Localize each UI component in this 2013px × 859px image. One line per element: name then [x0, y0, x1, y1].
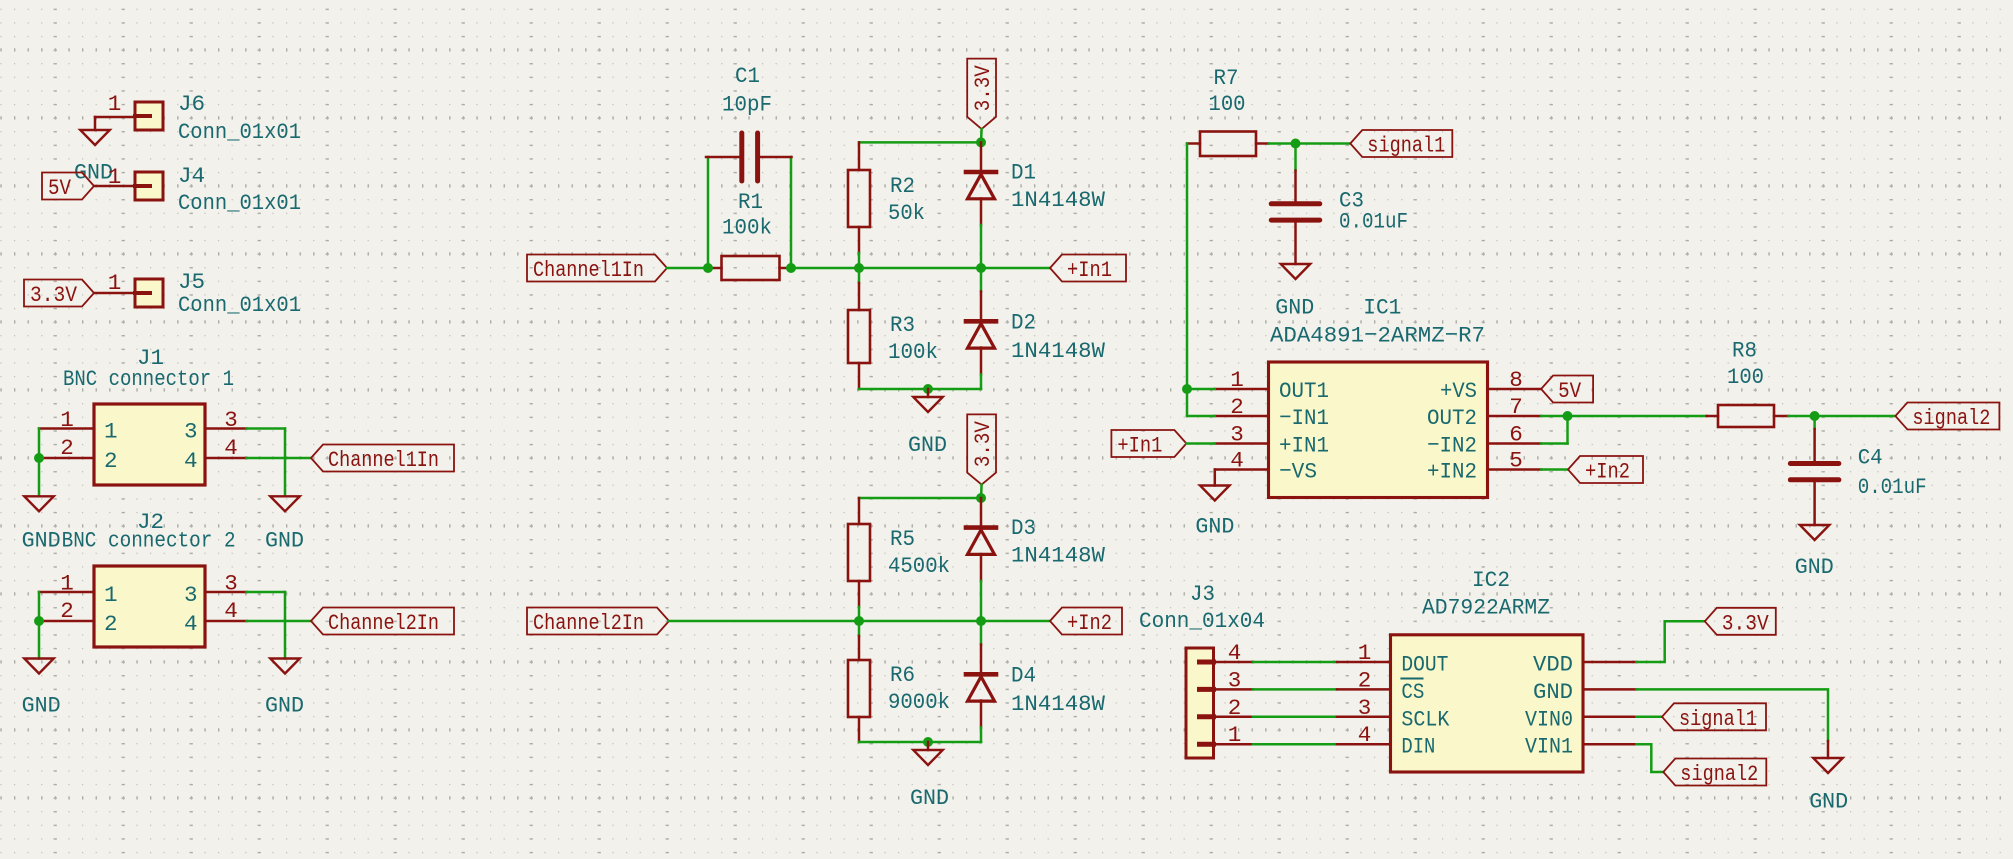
- svg-text:R3: R3: [890, 312, 915, 338]
- svg-text:GND: GND: [910, 785, 949, 811]
- svg-text:3.3V: 3.3V: [970, 421, 996, 467]
- svg-text:1N4148W: 1N4148W: [1011, 542, 1105, 568]
- svg-text:1N4148W: 1N4148W: [1011, 187, 1105, 213]
- svg-text:ADA4891−2ARMZ−R7: ADA4891−2ARMZ−R7: [1270, 323, 1485, 349]
- svg-text:4: 4: [1230, 448, 1244, 474]
- svg-text:R7: R7: [1214, 65, 1239, 91]
- svg-text:1: 1: [1230, 367, 1244, 393]
- svg-text:Channel1In: Channel1In: [328, 447, 439, 473]
- svg-text:R5: R5: [890, 526, 915, 552]
- svg-text:C4: C4: [1858, 445, 1883, 471]
- svg-text:GND: GND: [1275, 295, 1314, 321]
- svg-text:3: 3: [184, 582, 198, 608]
- svg-text:1: 1: [108, 164, 122, 190]
- svg-text:2: 2: [60, 435, 74, 461]
- svg-text:100k: 100k: [888, 339, 938, 365]
- svg-text:9000k: 9000k: [888, 689, 950, 715]
- svg-text:3.3V: 3.3V: [970, 65, 996, 111]
- svg-text:4: 4: [224, 435, 238, 461]
- svg-text:GND: GND: [22, 693, 61, 719]
- svg-text:100: 100: [1209, 91, 1246, 117]
- svg-text:3.3V: 3.3V: [30, 282, 77, 308]
- svg-text:+In1: +In1: [1067, 257, 1112, 283]
- svg-text:+In1: +In1: [1117, 433, 1162, 459]
- svg-text:50k: 50k: [888, 200, 925, 226]
- svg-text:0.01uF: 0.01uF: [1339, 209, 1408, 235]
- svg-text:100k: 100k: [722, 215, 772, 241]
- svg-text:GND: GND: [22, 528, 61, 554]
- svg-text:D2: D2: [1011, 310, 1036, 336]
- svg-text:1: 1: [104, 582, 118, 608]
- svg-text:IC1: IC1: [1363, 295, 1401, 321]
- svg-text:+In2: +In2: [1067, 610, 1112, 636]
- svg-text:1: 1: [60, 407, 74, 433]
- svg-text:GND: GND: [908, 432, 947, 458]
- svg-text:−IN2: −IN2: [1427, 433, 1477, 459]
- svg-text:OUT1: OUT1: [1279, 378, 1329, 404]
- svg-text:2: 2: [1230, 394, 1244, 420]
- svg-text:GND: GND: [1195, 514, 1234, 540]
- svg-text:1: 1: [60, 571, 74, 597]
- svg-text:6: 6: [1509, 422, 1523, 448]
- svg-text:IC2: IC2: [1472, 567, 1510, 593]
- svg-text:Channel2In: Channel2In: [328, 610, 439, 636]
- svg-text:J4: J4: [178, 163, 205, 189]
- svg-text:3: 3: [1228, 667, 1242, 693]
- svg-text:1: 1: [108, 91, 122, 117]
- svg-text:Conn_01x01: Conn_01x01: [178, 119, 301, 145]
- svg-text:GND: GND: [1533, 679, 1573, 705]
- svg-text:Channel2In: Channel2In: [533, 610, 644, 636]
- svg-text:Channel1In: Channel1In: [533, 257, 644, 283]
- svg-text:5: 5: [1509, 448, 1523, 474]
- svg-text:GND: GND: [265, 693, 304, 719]
- svg-text:DIN: DIN: [1401, 734, 1435, 760]
- svg-text:AD7922ARMZ: AD7922ARMZ: [1422, 595, 1550, 621]
- svg-text:GND: GND: [1809, 789, 1848, 815]
- svg-text:+VS: +VS: [1440, 378, 1477, 404]
- svg-text:signal1: signal1: [1367, 133, 1445, 159]
- svg-text:BNC connector 2: BNC connector 2: [62, 528, 236, 554]
- svg-text:D3: D3: [1011, 515, 1036, 541]
- svg-text:2: 2: [1358, 667, 1372, 693]
- svg-text:−VS: −VS: [1279, 459, 1317, 485]
- svg-text:4: 4: [184, 611, 198, 637]
- svg-text:CS: CS: [1401, 679, 1424, 705]
- svg-text:C1: C1: [735, 63, 760, 89]
- svg-text:signal2: signal2: [1680, 761, 1758, 787]
- svg-text:OUT2: OUT2: [1427, 405, 1477, 431]
- svg-text:SCLK: SCLK: [1401, 706, 1449, 732]
- svg-text:Conn_01x01: Conn_01x01: [178, 190, 301, 216]
- svg-text:8: 8: [1509, 367, 1523, 393]
- svg-text:4500k: 4500k: [888, 553, 950, 579]
- svg-text:1: 1: [108, 270, 122, 296]
- svg-text:4: 4: [1358, 722, 1372, 748]
- svg-text:+In2: +In2: [1585, 459, 1630, 485]
- svg-text:−IN1: −IN1: [1279, 405, 1329, 431]
- svg-text:VIN0: VIN0: [1525, 706, 1573, 732]
- svg-text:1N4148W: 1N4148W: [1011, 338, 1105, 364]
- svg-text:R8: R8: [1732, 338, 1757, 364]
- svg-text:J6: J6: [178, 91, 205, 117]
- svg-text:4: 4: [224, 598, 238, 624]
- svg-text:J3: J3: [1190, 581, 1215, 607]
- svg-text:signal1: signal1: [1679, 706, 1757, 732]
- svg-text:GND: GND: [1795, 554, 1834, 580]
- svg-text:1: 1: [104, 419, 118, 445]
- svg-text:10pF: 10pF: [722, 92, 772, 118]
- svg-text:BNC connector 1: BNC connector 1: [63, 366, 234, 392]
- svg-text:0.01uF: 0.01uF: [1858, 474, 1927, 500]
- svg-text:2: 2: [104, 611, 118, 637]
- svg-text:R2: R2: [890, 173, 915, 199]
- svg-text:4: 4: [184, 448, 198, 474]
- svg-text:VIN1: VIN1: [1525, 734, 1573, 760]
- svg-text:DOUT: DOUT: [1401, 652, 1448, 678]
- svg-text:Conn_01x04: Conn_01x04: [1139, 608, 1265, 634]
- svg-text:GND: GND: [265, 528, 304, 554]
- svg-text:3.3V: 3.3V: [1722, 610, 1769, 636]
- svg-text:1: 1: [1228, 722, 1242, 748]
- svg-text:1N4148W: 1N4148W: [1011, 691, 1105, 717]
- svg-text:2: 2: [104, 448, 118, 474]
- svg-text:+IN1: +IN1: [1279, 433, 1329, 459]
- svg-text:100: 100: [1727, 364, 1764, 390]
- svg-text:2: 2: [60, 598, 74, 624]
- svg-text:5V: 5V: [1558, 378, 1581, 404]
- svg-text:5V: 5V: [48, 175, 71, 201]
- svg-text:7: 7: [1509, 394, 1523, 420]
- svg-text:3: 3: [224, 571, 238, 597]
- svg-text:3: 3: [184, 419, 198, 445]
- svg-text:R6: R6: [890, 662, 915, 688]
- svg-text:Conn_01x01: Conn_01x01: [178, 292, 301, 318]
- svg-text:signal2: signal2: [1912, 405, 1990, 431]
- svg-text:3: 3: [1230, 422, 1244, 448]
- svg-text:1: 1: [1358, 640, 1372, 666]
- svg-text:3: 3: [224, 407, 238, 433]
- svg-text:4: 4: [1228, 640, 1242, 666]
- svg-text:VDD: VDD: [1533, 652, 1573, 678]
- svg-text:D4: D4: [1011, 663, 1036, 689]
- svg-text:+IN2: +IN2: [1427, 459, 1477, 485]
- svg-text:R1: R1: [738, 189, 763, 215]
- svg-text:D1: D1: [1011, 159, 1036, 185]
- svg-text:3: 3: [1358, 695, 1372, 721]
- svg-text:2: 2: [1228, 695, 1242, 721]
